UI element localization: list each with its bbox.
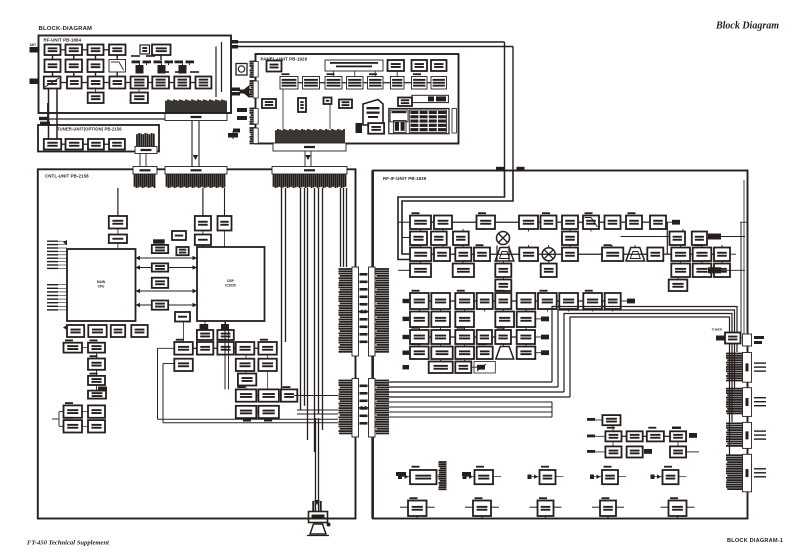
svg-text:BLOCK DIAGRAM-1: BLOCK DIAGRAM-1 <box>727 538 783 544</box>
svg-text:CPU: CPU <box>98 285 105 289</box>
svg-text:TUNER-UNIT(OPTION) PB-2156: TUNER-UNIT(OPTION) PB-2156 <box>57 127 122 132</box>
svg-text:DSP: DSP <box>227 279 234 283</box>
svg-text:MAIN: MAIN <box>97 280 106 284</box>
svg-text:TUNER: TUNER <box>712 328 723 332</box>
svg-text:FT-450 Technical Supplement: FT-450 Technical Supplement <box>27 540 109 547</box>
svg-text:ANT: ANT <box>30 43 37 47</box>
svg-text:BLOCK-DIAGRAM: BLOCK-DIAGRAM <box>39 26 93 32</box>
svg-text:RF-UNIT PB-1884: RF-UNIT PB-1884 <box>44 38 82 43</box>
svg-text:RF-IF-UNIT PB-1839: RF-IF-UNIT PB-1839 <box>383 176 427 181</box>
svg-text:Block Diagram: Block Diagram <box>715 21 779 32</box>
svg-text:IC2035: IC2035 <box>225 284 236 288</box>
svg-text:CNTL-UNIT PB-2158: CNTL-UNIT PB-2158 <box>45 174 89 179</box>
